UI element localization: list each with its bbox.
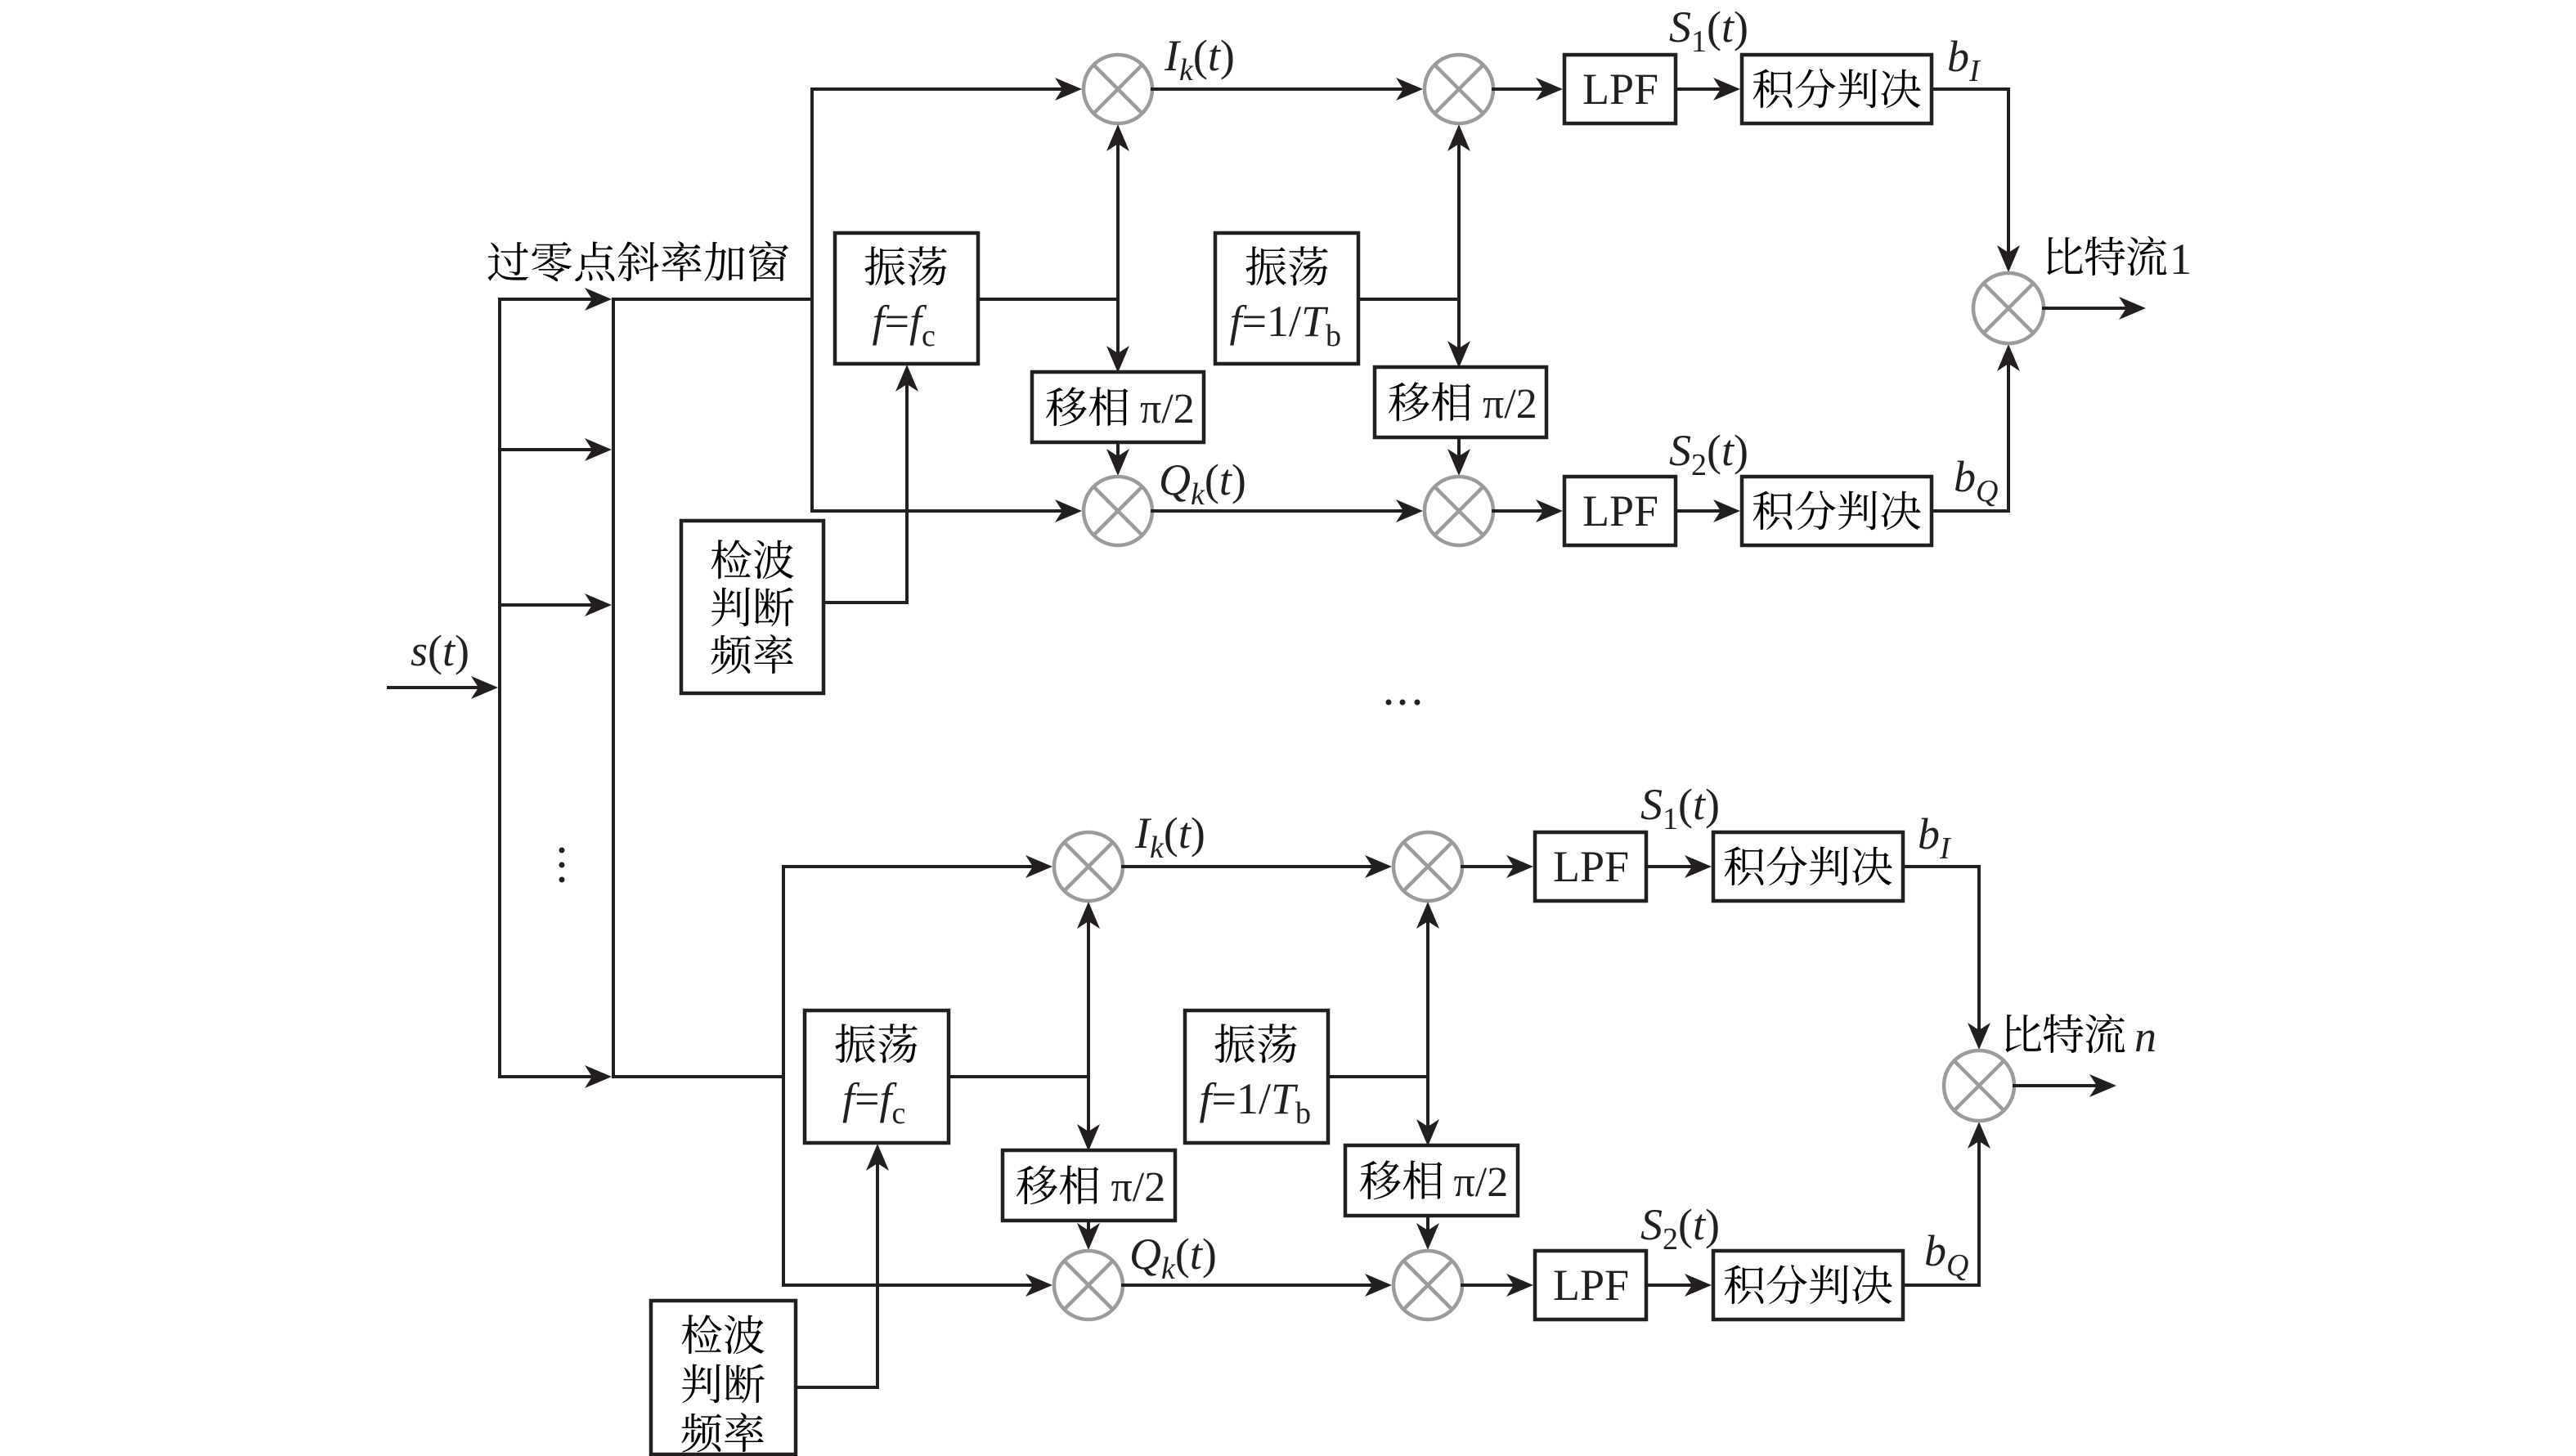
block CH1 LPF (I arm)	[1564, 55, 1676, 123]
node CH1 label bQ	[1954, 452, 1998, 508]
wire CHn output arrow	[2014, 1074, 2116, 1097]
wire CHn input from bus	[613, 1075, 783, 1078]
node CH1 label S2(t)	[1669, 426, 1748, 482]
wire CH1 I to LPF	[1493, 78, 1563, 101]
block CH1 移相 π/2 phase shifter (column 2)	[1375, 367, 1546, 437]
node CHn label bQ	[1924, 1226, 1968, 1283]
wire CHn into Q multiplier	[783, 1274, 1052, 1297]
node CH1 label bI	[1947, 32, 1981, 88]
multiplier CHn output combiner (x)	[1944, 1051, 2014, 1121]
block CHn 移相 π/2 phase shifter (column 1)	[1003, 1150, 1175, 1221]
block CHn 移相 π/2 phase shifter (column 2)	[1345, 1145, 1518, 1216]
wire CH1 bQ corner up to output multiplier	[1932, 344, 2020, 511]
svg-text:LPF: LPF	[1553, 1261, 1629, 1310]
wire CHn Ik(t) to second I multiplier	[1123, 855, 1392, 878]
multiplier CH1 Q second (x)	[1425, 477, 1493, 545]
svg-text:Ik(t): Ik(t)	[1164, 31, 1235, 87]
wire CHn column-2 clock vertical (up into I mult 2, down into phase shifter 2)	[1416, 902, 1439, 1146]
wire CHn bI corner down to output multiplier	[1903, 867, 1990, 1050]
wire CHn Tb oscillator to column-2	[1328, 1075, 1428, 1078]
block CH1 移相 π/2 phase shifter (column 1)	[1032, 372, 1204, 442]
wire CHn fc oscillator to column-1	[949, 1075, 1088, 1078]
wire CHn detector output to fc oscillator	[796, 1144, 889, 1387]
block CH1 振荡 f=1/Tb oscillator	[1215, 233, 1358, 364]
wire CHn bQ corner up to output multiplier	[1903, 1122, 1990, 1285]
node CHn label Ik(t)	[1134, 809, 1205, 865]
wire CH1 phase shifter 1 down into Q multiplier	[1106, 442, 1129, 476]
wire CHn phase shifter 2 down into Q multiplier 2	[1416, 1216, 1439, 1250]
node vertical ellipsis (more branches)	[559, 848, 565, 883]
node CHn label S2(t)	[1640, 1200, 1720, 1257]
block CHn 振荡 f=1/Tb oscillator	[1185, 1010, 1328, 1143]
multiplier CHn Q first (x)	[1054, 1251, 1123, 1319]
svg-text:π/2: π/2	[1140, 386, 1195, 432]
block CH1 振荡 f=fc oscillator	[835, 233, 978, 364]
wire CH1 column-1 carrier vertical (up into I mult, down into phase shifter)	[1106, 124, 1129, 373]
node CHn output stream label 比特流 n	[2005, 1012, 2156, 1061]
multiplier CHn I second (x)	[1393, 832, 1462, 901]
wire CHn into I multiplier	[783, 855, 1052, 878]
wire bus branch arrow 4 (channel n)	[500, 1065, 612, 1088]
svg-text:LPF: LPF	[1582, 65, 1658, 114]
wire CHn LPF to integrator (I)	[1646, 855, 1712, 878]
svg-text:S2(t): S2(t)	[1640, 1200, 1720, 1257]
wire CH1 I/Q split vertical	[810, 89, 814, 511]
wire CH1 into I multiplier	[812, 78, 1082, 101]
block CH1 积分判决 integrate-and-decide (Q arm)	[1742, 477, 1932, 545]
svg-text:LPF: LPF	[1553, 842, 1629, 891]
wire CH1 column-2 clock vertical (up into I mult 2, down into phase shifter 2)	[1447, 124, 1470, 368]
wire CH1 output arrow	[2044, 297, 2146, 320]
multiplier CHn Q second (x)	[1393, 1251, 1462, 1319]
wire CHn LPF to integrator (Q)	[1646, 1274, 1712, 1297]
wire CH1 Q to LPF	[1493, 500, 1563, 522]
svg-text:f=1/Tb: f=1/Tb	[1200, 1074, 1312, 1131]
block CHn 检波判断频率 detect-and-decide-frequency	[651, 1301, 796, 1454]
wire bus branch arrow 3	[500, 594, 612, 616]
wire CH1 phase shifter 2 down into Q multiplier 2	[1447, 437, 1470, 476]
multiplier CHn I first (x)	[1054, 832, 1123, 901]
wire CH1 input from bus	[613, 298, 812, 301]
wire s(t) input arrow	[388, 676, 498, 699]
svg-text:π/2: π/2	[1111, 1164, 1166, 1211]
wire CH1 Tb oscillator to column-2	[1358, 298, 1459, 301]
block CHn LPF (Q arm)	[1535, 1251, 1646, 1319]
svg-text:LPF: LPF	[1582, 486, 1658, 535]
wire CH1 bI corner down to output multiplier	[1932, 89, 2020, 272]
wire CH1 LPF to integrator (I)	[1676, 78, 1740, 101]
wire bus branch arrow 1	[500, 288, 612, 311]
svg-text:S2(t): S2(t)	[1669, 426, 1748, 482]
node CH1 label S1(t)	[1669, 2, 1748, 59]
block CHn 积分判决 integrate-and-decide (I arm)	[1713, 832, 1903, 901]
svg-text:1: 1	[2170, 235, 2192, 284]
multiplier CH1 I second (x)	[1425, 55, 1493, 123]
node CH1 output stream label 比特流 1	[2047, 235, 2192, 284]
svg-text:s(t): s(t)	[411, 626, 469, 675]
svg-text:f=1/Tb: f=1/Tb	[1230, 297, 1342, 353]
svg-text:Ik(t): Ik(t)	[1134, 809, 1205, 865]
node CHn label Qk(t)	[1129, 1230, 1217, 1286]
node CH1 label Qk(t)	[1159, 455, 1246, 512]
node horizontal ellipsis (between channels)	[1386, 700, 1420, 706]
svg-text:π/2: π/2	[1454, 1159, 1509, 1206]
wire CH1 detector output to fc oscillator	[824, 365, 918, 603]
node s(t) input label	[411, 626, 469, 675]
svg-text:π/2: π/2	[1483, 381, 1537, 428]
wire left bus vertical	[498, 299, 501, 1077]
wire right bus vertical	[612, 299, 615, 1077]
svg-text:S1(t): S1(t)	[1669, 2, 1748, 59]
block CHn LPF (I arm)	[1535, 832, 1646, 901]
multiplier CH1 I first (x)	[1084, 55, 1152, 123]
wire CHn I/Q split vertical	[782, 867, 785, 1285]
wire CHn Qk(t) to second Q multiplier	[1123, 1274, 1392, 1297]
wire CH1 LPF to integrator (Q)	[1676, 500, 1740, 522]
wire bus branch arrow 2	[500, 438, 612, 461]
block CH1 积分判决 integrate-and-decide (I arm)	[1742, 55, 1932, 123]
svg-text:n: n	[2134, 1012, 2156, 1061]
wire CH1 fc oscillator to column-1	[978, 298, 1118, 301]
block CH1 LPF (Q arm)	[1564, 477, 1676, 545]
wire CHn I to LPF	[1462, 855, 1533, 878]
block CHn 振荡 f=fc oscillator	[805, 1010, 949, 1143]
wire CHn column-1 carrier vertical (up into I mult, down into phase shifter)	[1077, 902, 1100, 1151]
block CH1 检波判断频率 detect-and-decide-frequency	[681, 521, 824, 693]
node label 过零点斜率加窗 (zero-crossing slope windowing)	[488, 241, 789, 281]
svg-text:S1(t): S1(t)	[1640, 780, 1720, 836]
wire CH1 Qk(t) to second Q multiplier	[1152, 500, 1423, 522]
node CHn label S1(t)	[1640, 780, 1720, 836]
multiplier CH1 output combiner (x)	[1973, 273, 2044, 343]
wire CH1 Ik(t) to second I multiplier	[1152, 78, 1423, 101]
node CHn label bI	[1918, 809, 1952, 866]
multiplier CH1 Q first (x)	[1084, 477, 1152, 545]
wire CHn phase shifter 1 down into Q multiplier	[1077, 1221, 1100, 1250]
wire CH1 into Q multiplier	[812, 500, 1082, 522]
wire CHn Q to LPF	[1462, 1274, 1533, 1297]
node CH1 label Ik(t)	[1164, 31, 1235, 87]
block CHn 积分判决 integrate-and-decide (Q arm)	[1713, 1251, 1903, 1319]
